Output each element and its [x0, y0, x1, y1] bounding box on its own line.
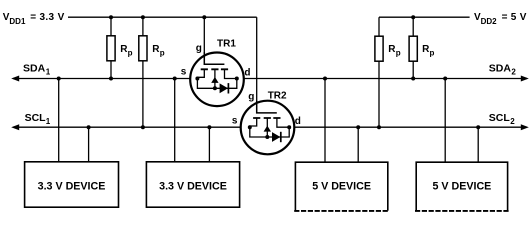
device box U4 5V — [415, 162, 509, 211]
junction SCL2/device4 — [476, 125, 480, 129]
resistor Rp2 — [139, 36, 165, 61]
svg-text:2: 2 — [510, 117, 515, 126]
pin g TR2 — [248, 91, 254, 102]
svg-text:SCL: SCL — [489, 112, 511, 124]
junction SCL2/device3 — [356, 125, 360, 129]
wire device4 SDA drop — [444, 79, 446, 163]
svg-text:p: p — [430, 49, 435, 58]
wire device1 SCL drop — [88, 127, 90, 162]
transistor TR1 — [190, 52, 244, 106]
wire TR1 gate lead — [203, 17, 205, 52]
junction SDA2/device4 — [443, 77, 447, 81]
svg-text:2: 2 — [511, 68, 516, 77]
svg-text:1: 1 — [46, 68, 51, 77]
wire SCL1 — [13, 126, 250, 128]
wire VDD2 rail — [379, 16, 470, 18]
junction SCL1/Rp2 — [141, 125, 145, 129]
wire SCL2 — [278, 126, 527, 128]
svg-text:TR2: TR2 — [268, 91, 287, 102]
svg-text:1: 1 — [46, 117, 51, 126]
wire Rp1 column — [110, 17, 112, 78]
resistor Rp4 — [409, 36, 434, 61]
svg-text:d: d — [295, 116, 301, 127]
bus SDA1 label — [23, 63, 51, 77]
label TR2 — [268, 91, 287, 102]
wire device4 SCL drop — [477, 127, 479, 162]
wire device2 SCL drop — [208, 127, 210, 162]
junction SCL1/device1 — [87, 125, 91, 129]
pin s TR2 — [232, 115, 238, 126]
svg-text:d: d — [244, 67, 250, 78]
svg-text:5 V DEVICE: 5 V DEVICE — [432, 181, 491, 193]
device box U3 5V — [294, 162, 389, 211]
svg-text:s: s — [232, 115, 238, 126]
svg-text:3.3 V DEVICE: 3.3 V DEVICE — [38, 181, 106, 193]
device box U2 3.3V — [146, 162, 239, 207]
device box U1 3.3V — [25, 162, 119, 207]
wire device3 SCL drop — [357, 127, 359, 162]
wire Rp3 column — [378, 17, 380, 127]
pin d TR1 — [244, 67, 250, 78]
junction VDD1/Rp2 — [141, 15, 145, 19]
wire device2 SDA drop — [174, 79, 176, 162]
svg-text:p: p — [160, 49, 165, 58]
svg-text:SDA: SDA — [489, 63, 512, 75]
wire SDA1 — [13, 78, 197, 80]
bus SCL1 label — [25, 112, 51, 126]
wire Rp2 column — [142, 17, 144, 127]
pin s TR1 — [181, 66, 187, 77]
svg-text:TR1: TR1 — [217, 39, 236, 50]
svg-text:SDA: SDA — [23, 63, 46, 75]
resistor Rp1 — [107, 36, 133, 61]
svg-text:g: g — [196, 43, 202, 54]
svg-text:5 V DEVICE: 5 V DEVICE — [312, 181, 371, 193]
pin d TR2 — [295, 116, 301, 127]
junction SDA2/Rp4 — [411, 77, 415, 81]
arrow SCL1 left — [11, 124, 19, 130]
junction SCL1/device2 — [207, 125, 211, 129]
bus SDA2 label — [489, 63, 517, 77]
wire Rp4 column — [412, 17, 414, 78]
net VDD2 label — [474, 12, 527, 26]
junction SDA1/device2 — [173, 77, 177, 81]
transistor TR2 — [241, 101, 295, 155]
wire TR2 gate lead — [256, 17, 258, 101]
junction VDD1/TR1 gate — [202, 15, 206, 19]
junction VDD2/Rp4 — [411, 15, 415, 19]
wire device1 SDA drop — [58, 79, 60, 162]
arrow SDA2 right — [521, 76, 529, 82]
svg-text:SCL: SCL — [25, 112, 47, 124]
wire SDA2 — [225, 78, 528, 80]
junction SDA2/device3 — [323, 77, 327, 81]
bus SCL2 label — [489, 112, 515, 126]
svg-text:DD2: DD2 — [481, 17, 498, 26]
junction SCL2/Rp3 — [377, 125, 381, 129]
resistor Rp3 — [375, 36, 401, 61]
wire VDD1 rail — [68, 16, 257, 18]
svg-text:g: g — [248, 91, 254, 102]
svg-text:s: s — [181, 66, 187, 77]
net VDD1 label — [3, 12, 65, 26]
wire device3 SDA drop — [324, 79, 326, 163]
svg-text:DD1: DD1 — [9, 17, 26, 26]
svg-text:p: p — [396, 49, 401, 58]
arrow SCL2 right — [521, 124, 529, 130]
svg-text:p: p — [128, 49, 133, 58]
pin g TR1 — [196, 43, 202, 54]
svg-text:3.3 V DEVICE: 3.3 V DEVICE — [159, 181, 227, 193]
junction SDA1/device1 — [57, 77, 61, 81]
svg-text:= 3.3 V: = 3.3 V — [30, 12, 64, 23]
label TR1 — [217, 39, 236, 50]
junction SDA1/Rp1 — [109, 77, 113, 81]
arrow SDA1 left — [11, 76, 19, 82]
junction VDD1/Rp1 — [109, 15, 113, 19]
svg-text:= 5 V: = 5 V — [502, 12, 527, 23]
